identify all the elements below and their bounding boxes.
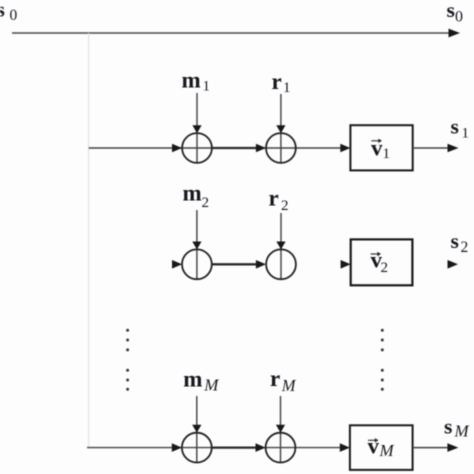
- svg-text:1: 1: [462, 125, 470, 141]
- svg-text:2: 2: [202, 195, 210, 211]
- svg-text:r: r: [270, 366, 280, 391]
- wire r2 input vertical: [280, 213, 282, 279]
- arrowhead rM into adder: [276, 425, 285, 433]
- svg-text:s: s: [451, 229, 459, 253]
- arrowhead top right: [449, 29, 461, 38]
- wire row1 thick segment between adders: [212, 147, 258, 149]
- arrowhead r1 into adder: [276, 125, 285, 133]
- wire rowM horizontal: [87, 447, 341, 449]
- adder circle A1: [182, 133, 212, 163]
- svg-text:r: r: [272, 69, 282, 94]
- vdots right column: [381, 329, 384, 332]
- wire m2 input vertical: [196, 210, 198, 279]
- svg-text:m: m: [183, 367, 202, 392]
- wire m1 input vertical: [196, 93, 198, 163]
- arrowhead into adder B2: [256, 260, 266, 269]
- svg-text:M: M: [281, 376, 297, 395]
- wire vertical rail from s0 line: [88, 33, 90, 448]
- arrowhead into box v2 (no wire): [341, 260, 351, 269]
- svg-text:M: M: [203, 376, 219, 395]
- adder circle BM: [266, 433, 296, 463]
- arrowhead rowM output: [447, 443, 458, 452]
- svg-text:m: m: [182, 67, 201, 92]
- svg-text:r: r: [269, 186, 279, 211]
- wire rowM thick segment between adders: [212, 446, 258, 448]
- arrowhead into adder B1: [256, 144, 266, 153]
- svg-text:2: 2: [281, 198, 289, 214]
- svg-text:s: s: [444, 415, 452, 439]
- svg-text:s: s: [0, 0, 5, 22]
- svg-text:M: M: [454, 421, 470, 440]
- adder circle A2: [182, 249, 212, 279]
- arrowhead into adder A2 (no wire): [172, 260, 182, 269]
- arrowhead into box vM: [340, 443, 350, 452]
- svg-text:2: 2: [461, 239, 469, 256]
- svg-text:s: s: [451, 115, 459, 139]
- adder circle B1: [266, 133, 296, 163]
- svg-text:v: v: [368, 434, 380, 459]
- svg-text:1: 1: [383, 146, 391, 162]
- wire row1 horizontal: [89, 147, 341, 149]
- arrowhead into adder A1: [172, 144, 182, 153]
- wire row2 between adders: [212, 263, 258, 265]
- arrowhead row2 output (no wire): [448, 260, 459, 269]
- svg-text:s: s: [447, 0, 455, 22]
- svg-text:2: 2: [381, 260, 389, 276]
- wire s0 top horizontal: [12, 32, 450, 34]
- svg-text:1: 1: [203, 79, 211, 95]
- adder circle AM: [182, 433, 212, 463]
- arrowhead m2 into adder: [192, 242, 201, 250]
- wire row1 output: [413, 147, 449, 149]
- arrowhead mM into adder: [192, 425, 201, 433]
- vdots left column: [126, 329, 129, 332]
- svg-text:0: 0: [455, 8, 463, 25]
- arrowhead r2 into adder: [276, 242, 285, 250]
- arrowhead m1 into adder: [192, 125, 201, 133]
- arrowhead into adder AM: [172, 443, 182, 452]
- wire rowM output: [413, 447, 449, 449]
- svg-text:0: 0: [10, 7, 18, 24]
- wire r1 input vertical: [280, 94, 282, 163]
- wire rM input vertical: [280, 396, 282, 463]
- svg-text:M: M: [379, 441, 395, 460]
- arrowhead into box v1: [340, 144, 350, 153]
- adder circle B2: [266, 249, 296, 279]
- svg-text:1: 1: [283, 80, 291, 96]
- svg-text:v: v: [371, 136, 383, 161]
- box vM: [350, 425, 413, 470]
- arrowhead row1 output: [448, 144, 459, 153]
- svg-text:m: m: [183, 181, 202, 206]
- box v2: [351, 239, 413, 285]
- wire mM input vertical: [196, 396, 198, 463]
- box v1: [350, 125, 412, 170]
- arrowhead into adder BM: [256, 443, 266, 452]
